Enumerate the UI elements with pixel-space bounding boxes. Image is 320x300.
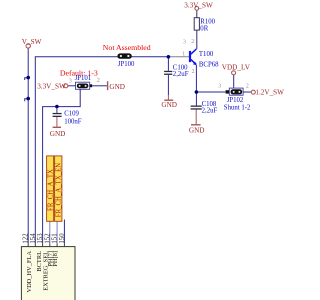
- svg-text:3: 3: [69, 79, 72, 85]
- svg-text:2,2uF: 2,2uF: [173, 71, 189, 78]
- svg-text:3: 3: [218, 83, 221, 89]
- svg-text:JP102: JP102: [227, 97, 244, 104]
- svg-text:152: 152: [44, 233, 51, 244]
- svg-text:100nF: 100nF: [64, 119, 82, 126]
- svg-text:BCP68: BCP68: [199, 61, 219, 68]
- svg-text:VDD_HV_FLA: VDD_HV_FLA: [26, 251, 33, 293]
- svg-text:VDD_LV: VDD_LV: [222, 64, 251, 72]
- svg-text:153: 153: [37, 233, 44, 244]
- svg-text:0R: 0R: [200, 25, 208, 32]
- svg-text:FR_CH_A_TX_EN: FR_CH_A_TX_EN: [56, 163, 63, 217]
- svg-text:3: 3: [183, 39, 186, 45]
- svg-text:GND: GND: [50, 130, 66, 138]
- svg-text:PH[8]: PH[8]: [52, 251, 59, 267]
- svg-text:2,2uF: 2,2uF: [202, 108, 218, 115]
- svg-text:T100: T100: [199, 51, 214, 58]
- svg-text:JP100: JP100: [118, 61, 135, 68]
- svg-text:GND: GND: [161, 101, 177, 109]
- svg-text:C109: C109: [64, 111, 79, 118]
- svg-text:3.3V_SW: 3.3V_SW: [184, 1, 213, 9]
- svg-text:122: 122: [23, 233, 30, 244]
- svg-text:2: 2: [246, 83, 249, 89]
- svg-text:150: 150: [59, 233, 66, 244]
- svg-text:154: 154: [30, 233, 37, 244]
- svg-text:R100: R100: [200, 18, 215, 25]
- svg-text:FR_CH_A_TX: FR_CH_A_TX: [48, 169, 55, 211]
- svg-text:V_SW: V_SW: [22, 38, 42, 46]
- svg-text:JP101: JP101: [75, 75, 92, 82]
- svg-text:151: 151: [52, 233, 59, 243]
- svg-text:1.2V_SW: 1.2V_SW: [255, 89, 284, 97]
- svg-text:2: 2: [97, 78, 100, 84]
- svg-text:Shunt 1-2: Shunt 1-2: [224, 105, 251, 112]
- svg-text:Not Assembled: Not Assembled: [103, 43, 151, 52]
- svg-text:3.3V_SW: 3.3V_SW: [37, 82, 66, 90]
- svg-text:GND: GND: [109, 83, 125, 91]
- svg-text:1: 1: [182, 51, 185, 57]
- svg-text:2: 2: [192, 69, 195, 75]
- svg-text:GND: GND: [189, 126, 205, 134]
- svg-text:2: 2: [191, 39, 194, 45]
